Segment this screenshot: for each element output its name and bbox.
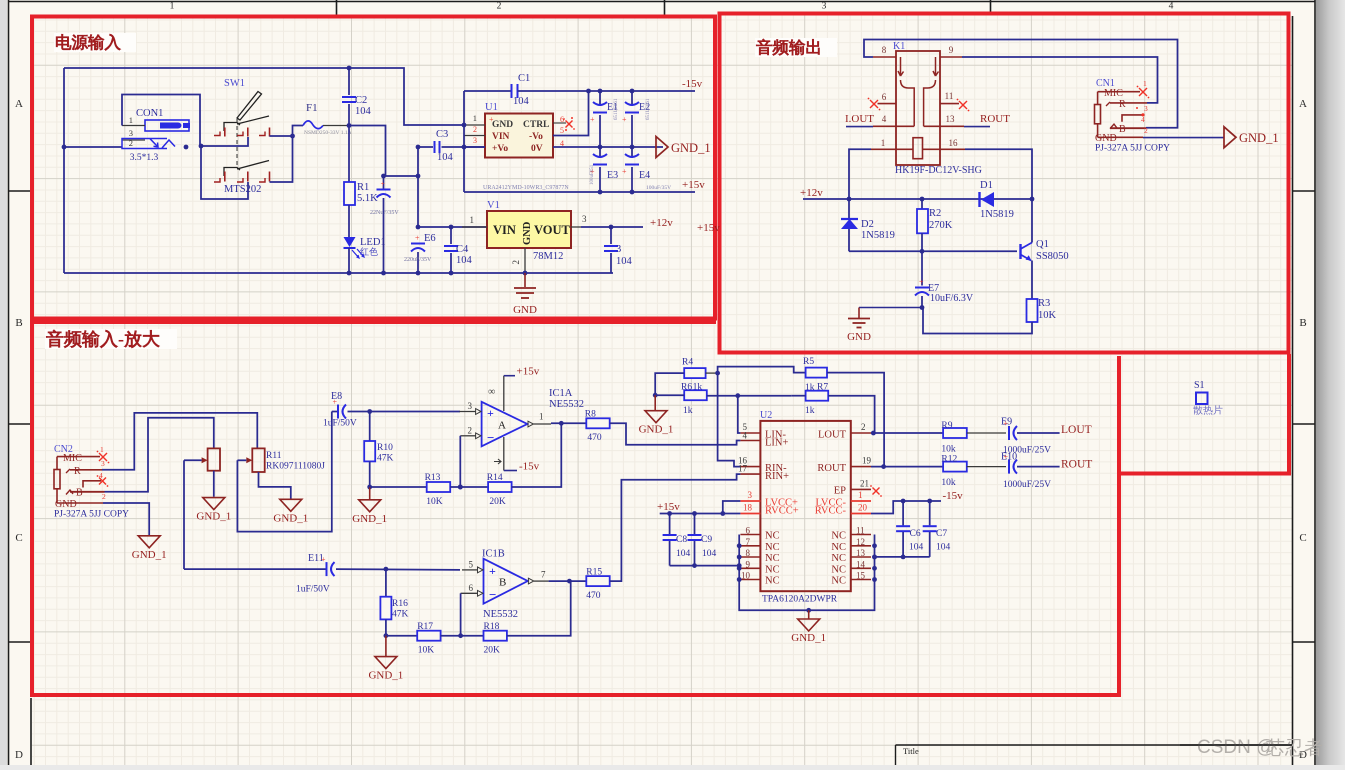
svg-text:LIN+: LIN+ [765,438,788,449]
svg-text:GND_1: GND_1 [1239,131,1279,145]
GND_1 arrow power input [656,137,668,158]
svg-text:R: R [74,466,81,477]
capacitor C2 [348,68,350,95]
svg-text:1: 1 [470,215,475,225]
svg-text:R7: R7 [817,383,828,393]
svg-text:C6: C6 [910,529,921,539]
IC1B pin 5 [462,569,478,571]
K1 pin 9 [940,56,962,58]
svg-text:R9: R9 [941,421,952,431]
svg-text:U2: U2 [760,410,772,421]
svg-text:6: 6 [469,583,474,593]
svg-text:+: + [381,180,386,189]
svg-text:2: 2 [1144,126,1148,135]
wire relay pin1 down [849,149,871,199]
K1 coil [913,138,923,159]
wire pot1 bottom to GND_1 [213,471,215,497]
GND_1 under CN2 [138,536,160,548]
section box 音频输入-放大 (audio input amplify) [32,322,1119,695]
svg-text:220uF/35V: 220uF/35V [404,257,432,263]
svg-text:651UF061: 651UF061 [614,98,619,120]
svg-text:10k: 10k [941,445,956,455]
resistor R1 [344,182,355,205]
resistor R9 10k [943,428,967,438]
svg-text:4: 4 [1169,2,1174,12]
svg-text:3: 3 [582,214,587,224]
svg-text:URA2412YMD-10WR3_C97877N: URA2412YMD-10WR3_C97877N [483,185,569,191]
svg-text:NC: NC [765,531,780,542]
wire CN1 GND to GND_1 [1143,137,1224,139]
svg-text:+: + [919,278,924,287]
resistor R14 20K [488,482,512,492]
svg-text:NC: NC [765,542,780,553]
svg-text:1000uF/25V: 1000uF/25V [1003,480,1051,490]
svg-text:104: 104 [616,256,633,267]
svg-text:+15v: +15v [517,366,540,378]
svg-text:11: 11 [856,526,865,536]
svg-text:SS8050: SS8050 [1036,251,1069,262]
svg-text:R15: R15 [586,568,602,578]
svg-text:B: B [15,317,22,329]
V1 pin 3 +12v [571,226,581,228]
wire left rail down [63,68,65,273]
svg-text:F1: F1 [306,102,318,114]
CN2 switch contact pin [83,481,101,488]
svg-text:NE5532: NE5532 [483,609,518,620]
svg-text:NC: NC [831,542,846,553]
K1 pin 6 with X [878,103,897,105]
capacitor C8 104 [669,514,671,535]
svg-text:VIN: VIN [493,223,516,237]
wire pot1 wiper to E11 [184,459,202,461]
svg-text:S1: S1 [1194,380,1205,391]
wire emitter to R3 [1031,261,1033,300]
svg-text:4: 4 [1141,115,1145,124]
svg-text:20: 20 [858,503,868,513]
CON1 pin 1 [122,125,145,127]
potentiometer R11 [252,448,264,472]
transistor Q1 SS8050 [1019,244,1021,259]
capacitor C7 104 [929,501,931,525]
svg-text:3.5*1.3: 3.5*1.3 [130,153,159,163]
svg-text:C4: C4 [456,244,469,255]
svg-text:+: + [333,398,338,407]
svg-text:1: 1 [100,445,104,454]
resistor R3 10K [1027,299,1038,322]
svg-text:1N5819: 1N5819 [861,230,895,241]
wire base node [849,250,1017,252]
GND symbol audio output [858,308,860,319]
svg-text:+: + [321,555,326,564]
svg-text:10K: 10K [1038,310,1057,321]
svg-text:100uF051: 100uF051 [590,164,595,185]
svg-text:-Vo: -Vo [529,132,543,142]
svg-text:VOUT: VOUT [534,223,571,237]
svg-text:4: 4 [743,431,748,441]
wire U2 LOUT [871,432,943,434]
svg-text:B: B [499,577,506,589]
capacitor C3 [416,145,421,150]
resistor R12 10k [943,462,967,472]
svg-text:Q1: Q1 [1036,239,1049,250]
svg-text:3: 3 [101,459,105,468]
svg-text:EP: EP [834,486,846,497]
svg-text:NC: NC [831,553,846,564]
wire U1 -Vo to -15v line [553,91,589,136]
svg-text:B: B [76,488,83,499]
wire CN2 B to pot loop [105,418,214,492]
svg-text:LED1: LED1 [360,237,386,248]
svg-text:9: 9 [746,559,751,569]
K1 pin 16 [923,148,966,150]
svg-text:-15v: -15v [519,461,540,473]
svg-text:2: 2 [468,426,473,436]
svg-text:GND: GND [1095,133,1117,144]
wire R4 to R5 [706,372,718,374]
title block line over watermark [1180,744,1292,746]
title 电源输入 [54,33,136,52]
svg-text:ROUT: ROUT [817,463,846,474]
section box 电源输入 (power input) [32,17,715,319]
svg-text:+: + [489,564,496,578]
svg-text:Title: Title [903,746,919,756]
svg-text:+: + [1004,419,1009,428]
U2 NC left rail [739,535,874,611]
svg-text:ROUT: ROUT [980,113,1010,125]
svg-text:1: 1 [1143,79,1147,88]
svg-text:NC: NC [765,564,780,575]
svg-text:11: 11 [945,91,954,101]
svg-text:17: 17 [738,464,748,474]
svg-text:U1: U1 [485,102,498,113]
wire fuse output riser [349,126,386,177]
-15v net from U2 [871,501,941,514]
svg-text:4: 4 [882,114,887,124]
resistor R2 270K [921,199,923,209]
node R13 R14 feedback [370,486,427,488]
GND symbol power [524,273,526,287]
svg-text:R14: R14 [487,473,503,483]
svg-text:PJ-327A 5JJ COPY: PJ-327A 5JJ COPY [54,510,129,520]
svg-text:E3: E3 [607,170,618,181]
K1 pin 11 with X [940,103,959,105]
svg-text:RK097111080J: RK097111080J [266,462,325,472]
svg-text:R8: R8 [585,410,596,420]
svg-text:C8: C8 [676,535,687,545]
svg-text:ROUT: ROUT [1061,459,1092,471]
wire CN2 R to pot R11 loop [102,413,257,470]
GND_1 under U2 [808,610,810,619]
wire U2 ROUT [871,466,943,468]
resistor R4 1k [684,368,705,378]
svg-text:LOUT: LOUT [818,430,847,441]
svg-text:GND_1: GND_1 [639,424,674,436]
svg-text:3: 3 [468,401,473,411]
svg-text:GND: GND [513,304,537,316]
svg-text:R5: R5 [803,357,814,367]
svg-text:104: 104 [355,106,372,117]
svg-text:3: 3 [616,244,621,255]
svg-text:R12: R12 [941,455,957,465]
svg-text:19: 19 [862,456,872,466]
IC1A power -15v [503,437,505,471]
capacitor C5 at +12v [610,227,612,244]
svg-text:-15v: -15v [943,490,964,502]
svg-text:E6: E6 [424,233,436,244]
svg-text:21: 21 [860,479,869,489]
svg-text:D: D [15,749,23,761]
svg-text:1: 1 [539,412,544,422]
svg-text:I.OUT: I.OUT [845,113,874,125]
capacitor E7 10uF/6.3V [921,251,923,285]
svg-text:3: 3 [1144,104,1148,113]
svg-text:8: 8 [882,45,887,55]
svg-text:78M12: 78M12 [533,251,563,262]
wire R11 bottom to GND_1 [259,472,291,499]
GND_1 under R10 [369,487,371,499]
GND_1 under R16 [385,636,387,656]
svg-text:R10: R10 [377,443,393,453]
svg-text:R17: R17 [417,622,433,632]
wire +12v rail [803,198,1032,200]
op-amp IC1B NE5532 [484,559,528,604]
resistor R7 1k [806,391,829,401]
svg-text:9: 9 [949,45,954,55]
svg-text:IC1A: IC1A [549,388,573,399]
svg-text:12: 12 [856,537,865,547]
svg-text:NC: NC [765,553,780,564]
capacitor C9 104 [694,514,696,535]
svg-text:R4: R4 [682,358,693,368]
svg-text:C: C [15,532,22,544]
svg-text:20K: 20K [484,646,501,656]
wire relay pin16 to +12v node [965,149,1032,199]
svg-text:RIN+: RIN+ [765,471,789,482]
title 音频输出 [755,38,837,57]
svg-text:1k: 1k [805,406,815,416]
svg-text:20K: 20K [489,497,506,507]
svg-text:−: − [489,587,496,602]
svg-text:B: B [1119,124,1126,135]
svg-text:C1: C1 [518,73,530,84]
svg-text:+: + [415,234,420,243]
title 音频输入-放大 [45,329,177,349]
wire top loop power input [64,68,464,125]
svg-text:NSMD250-33V 1.1A: NSMD250-33V 1.1A [304,130,352,136]
svg-text:NC: NC [831,576,846,587]
svg-text:RVCC+: RVCC+ [765,506,799,517]
svg-text:C3: C3 [436,129,448,140]
svg-text:GND_1: GND_1 [132,549,167,561]
svg-text:NC: NC [831,564,846,575]
capacitor E2 [631,91,633,106]
svg-text:GND: GND [847,331,871,343]
svg-text:104: 104 [936,543,951,553]
capacitor E5 22uF/35V [383,176,385,189]
GND_1 for R4 R6 [654,395,656,411]
svg-text:1uF/50V: 1uF/50V [296,585,330,595]
svg-text:2: 2 [102,492,106,501]
IC1A pin 3 [459,411,475,413]
diode D2 1N5819 [848,199,850,219]
svg-text:+12v: +12v [800,187,823,199]
svg-text:10K: 10K [418,646,435,656]
wire relay pin9 to CN1 R [962,57,1158,103]
svg-text:GND_1: GND_1 [368,670,403,682]
svg-text:+12v: +12v [650,217,673,229]
svg-text:R16: R16 [392,599,408,609]
svg-text:D2: D2 [861,219,874,230]
GND_1 arrow audio output [1224,127,1236,148]
capacitor C4 [450,227,452,244]
svg-text:5.1K: 5.1K [357,193,378,204]
op-amp IC1A NE5532 [482,402,528,447]
K1 pin 8 [873,56,896,58]
svg-text:3: 3 [748,490,753,500]
svg-text:R13: R13 [425,473,441,483]
svg-text:+: + [590,115,595,124]
wire R15 to U2 RIN+ [610,474,741,581]
svg-text:2: 2 [861,422,866,432]
CN1 B pin [1110,124,1117,129]
svg-text:A: A [15,98,23,110]
svg-text:GND_1: GND_1 [352,513,387,525]
svg-text:C9: C9 [701,535,712,545]
resistor R6 1k [684,390,707,400]
wire feed to V1 [417,147,419,227]
svg-text:2: 2 [473,125,477,134]
svg-text:R1: R1 [357,182,369,193]
svg-text:R3: R3 [1038,298,1050,309]
wire R4R5 node to U2 RIN- [718,373,741,467]
svg-text:10K: 10K [426,497,443,507]
svg-text:16: 16 [949,138,959,148]
svg-text:1k: 1k [683,406,693,416]
wire R8 to U2 LIN+ [610,423,741,444]
wire C8 C9 to NC rail [670,565,740,567]
wires SW1 [199,144,204,149]
capacitor E1 [599,91,601,106]
wire R11 wiper to E8 [237,459,246,461]
capacitor C6 104 [902,501,904,525]
capacitor E10 1000uF/25V [967,466,1006,468]
resistor R8 470 [586,418,609,428]
svg-text:0V: 0V [531,144,543,154]
svg-text:GND_1: GND_1 [671,141,711,155]
wire R18 to output node [507,581,571,636]
svg-text:+15v: +15v [697,222,720,234]
svg-text:V1: V1 [487,200,500,211]
svg-text:470: 470 [586,591,601,601]
resistor R15 470 [586,576,609,586]
svg-text:CTRL: CTRL [523,120,549,130]
wire R6 to R7 and U2 LIN- [707,395,792,397]
wire R14 to output node [512,423,562,487]
svg-text:1: 1 [881,138,886,148]
K1 pin 4 / I.OUT [873,125,914,127]
svg-text:13: 13 [856,548,866,558]
svg-text:104: 104 [513,96,530,107]
svg-text:+: + [622,167,627,176]
svg-text:GND_1: GND_1 [196,511,231,523]
wire CN2 GND down [103,503,149,535]
svg-text:+Vo: +Vo [492,144,508,154]
svg-text:104: 104 [909,543,924,553]
svg-text:GND: GND [55,499,77,510]
svg-text:651UF061: 651UF061 [646,98,651,120]
svg-text:7: 7 [541,570,546,580]
svg-text:B: B [1299,317,1306,329]
svg-text:GND: GND [522,221,533,245]
svg-text:∞: ∞ [488,387,495,398]
svg-text:10uF/6.3V: 10uF/6.3V [930,293,974,304]
svg-text:1: 1 [473,113,477,123]
svg-text:47K: 47K [392,610,409,620]
svg-text:NC: NC [765,576,780,587]
V1 pin 2 [524,248,526,273]
svg-text:R11: R11 [266,451,282,461]
title block [896,745,1293,765]
svg-text:R18: R18 [484,622,500,632]
svg-text:22NuF/35V: 22NuF/35V [370,210,399,216]
K1 left contact [898,57,904,76]
capacitor E4 [631,147,633,158]
svg-text:1: 1 [129,115,133,125]
svg-text:270K: 270K [929,220,953,231]
node rail E5 to V1 feed [384,175,418,177]
svg-text:4: 4 [99,471,103,480]
wire R7 to LOUT node [828,396,874,433]
svg-text:MIC: MIC [1104,88,1123,99]
svg-text:HK19F-DC12V-SHG: HK19F-DC12V-SHG [895,165,982,176]
svg-text:5: 5 [560,126,564,135]
svg-text:VIN: VIN [492,132,510,142]
wire CON1 pin1 to SW1 [122,95,200,147]
resistor R16 47K [385,569,387,597]
svg-text:GND: GND [492,120,513,130]
svg-text:LOUT: LOUT [1061,424,1092,436]
resistor R13 10K [427,482,451,492]
resistor R10 47K [369,412,371,442]
svg-text:MTS202: MTS202 [224,184,261,195]
svg-text:470: 470 [587,433,602,443]
svg-text:13: 13 [946,114,956,124]
svg-text:E4: E4 [639,170,650,181]
capacitor E6 [411,243,425,245]
node R17 R18 feedback [386,635,417,637]
CN1 switch contact pin [1122,115,1142,122]
svg-text:2: 2 [497,2,502,12]
svg-text:+: + [487,406,494,420]
IC1A pin 2 [460,435,475,437]
capacitor E3 [599,147,601,158]
K1 pin 1 [871,148,913,150]
svg-text:MIC: MIC [63,453,82,464]
resistor R5 1k [806,368,827,378]
svg-text:+: + [622,115,627,124]
svg-text:10k: 10k [941,478,956,488]
svg-text:3: 3 [822,2,827,12]
svg-text:3: 3 [129,128,133,138]
wire C6 C7 bottoms to rail [875,556,930,558]
svg-text:NC: NC [831,531,846,542]
svg-text:104: 104 [456,255,473,266]
svg-text:CON1: CON1 [136,108,163,119]
wire relay pin8 top loop to CN1 [864,40,1178,128]
svg-text:1N5819: 1N5819 [980,209,1014,220]
svg-text:3: 3 [473,136,477,145]
svg-text:15: 15 [856,571,866,581]
